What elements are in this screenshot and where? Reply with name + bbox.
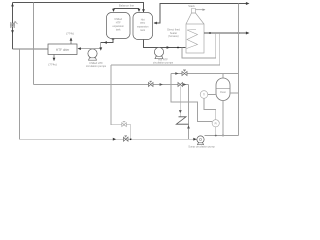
svg-text:(774t): (774t) <box>66 32 74 36</box>
filter Z <box>176 117 188 124</box>
svg-text:tank: tank <box>140 29 145 32</box>
svg-text:Stack: Stack <box>188 4 195 8</box>
wire heater bypass loop <box>182 33 216 58</box>
wire fill line L1 <box>111 33 220 65</box>
valve V5 on bottom line <box>124 136 129 141</box>
svg-text:tank: tank <box>116 29 121 32</box>
pump P1 chilled HTF circulation pump <box>88 49 97 58</box>
vessel oven <box>216 78 230 101</box>
stack <box>192 9 196 14</box>
tank T2 hot HTF expansion tank <box>133 13 153 40</box>
wire oven bottom outlet <box>222 101 224 136</box>
wire pump1 discharge into drier <box>78 48 101 50</box>
svg-text:Sump circulation pump: Sump circulation pump <box>188 144 215 148</box>
svg-text:Balance line: Balance line <box>119 3 135 7</box>
wire line A salt feed <box>171 73 239 75</box>
wire left riser <box>12 3 14 50</box>
node down arrow on left riser <box>11 30 14 33</box>
valve V1 on left riser <box>11 21 18 28</box>
svg-text:Oven: Oven <box>220 90 227 94</box>
node drier top vent arrow <box>70 38 72 44</box>
wire bottom line to pump3 <box>193 138 196 141</box>
valve V2 on line A <box>182 70 187 76</box>
pump P3 sump circulation pump <box>197 136 204 143</box>
wire header to drier box <box>13 48 49 50</box>
tank T1 chilled HTF expansion tank <box>107 13 131 39</box>
svg-text:HTF drier: HTF drier <box>56 48 70 52</box>
valve V3 on line B <box>149 81 154 86</box>
valve V6 on drain line <box>122 121 127 126</box>
node drop into oven top <box>222 74 224 79</box>
wire pump3 suction bottom right <box>205 135 239 137</box>
svg-text:(furnace): (furnace) <box>168 34 179 38</box>
wire line C <box>171 74 212 122</box>
node drier bottom drain arrow <box>53 55 55 61</box>
wire hot tank outlet to pump2 and heater <box>144 40 186 48</box>
wire chilled tank outlet to pump1 <box>101 38 113 49</box>
wire main right vertical <box>238 4 240 136</box>
instrument PI <box>212 120 219 127</box>
wire top header line <box>13 3 144 13</box>
svg-text:PI: PI <box>215 122 218 125</box>
wire v2 drop from line B <box>188 85 190 140</box>
node up arrow top-left <box>11 3 14 6</box>
wire heater outlet line <box>204 32 247 34</box>
instrument TI <box>200 91 208 99</box>
node arrow into hot tank top <box>142 9 145 12</box>
valve V4 on line B <box>178 83 183 87</box>
pump P2 hot HTF circulation pump <box>154 47 163 56</box>
wire v1 drop to filter <box>179 87 181 117</box>
svg-text:(774s): (774s) <box>48 63 57 67</box>
heater body <box>186 24 204 53</box>
svg-text:circulation pumps: circulation pumps <box>86 64 107 68</box>
wire balance line <box>114 8 140 10</box>
wire gray drain line y124 <box>111 65 131 139</box>
coil inside heater <box>187 30 198 49</box>
wire vertical from header to line B <box>33 3 35 85</box>
wire hot tank right nozzle from heater return <box>154 4 247 24</box>
wire gray down-left loop <box>20 49 198 139</box>
heater roof <box>186 13 204 24</box>
box HTF drier <box>48 44 77 55</box>
svg-text:TI: TI <box>203 94 205 97</box>
svg-text:circulation pumps: circulation pumps <box>153 61 174 65</box>
wire oven right nozzle <box>230 92 239 94</box>
wire line B <box>34 84 189 86</box>
